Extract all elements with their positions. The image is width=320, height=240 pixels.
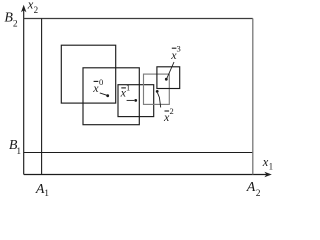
node point x0 xyxy=(106,94,109,97)
svg-text:x: x xyxy=(92,81,99,95)
label xbar1 xyxy=(120,82,131,99)
svg-text:1: 1 xyxy=(269,162,274,172)
svg-text:x: x xyxy=(170,48,177,62)
svg-text:3: 3 xyxy=(177,43,181,53)
svg-text:2: 2 xyxy=(13,19,18,29)
svg-text:2: 2 xyxy=(256,189,261,199)
svg-text:x: x xyxy=(120,86,127,100)
x1 axis xyxy=(24,172,272,177)
box R5 xyxy=(157,67,180,89)
node B1 label xyxy=(9,138,22,157)
svg-text:2: 2 xyxy=(170,106,174,116)
svg-text:1: 1 xyxy=(16,147,21,157)
svg-text:1: 1 xyxy=(44,189,49,199)
node point x2 xyxy=(156,90,159,93)
box R3 xyxy=(118,85,154,117)
wire B2 top edge xyxy=(24,18,253,20)
box R4 (gray) xyxy=(144,74,170,104)
wire A2 line xyxy=(252,19,254,175)
x1 axis label xyxy=(262,155,273,172)
pointer to point x3 xyxy=(167,62,174,78)
node point x3 xyxy=(165,78,168,81)
wire B1 line xyxy=(24,152,253,154)
x2 axis xyxy=(21,5,26,175)
svg-text:A: A xyxy=(246,180,256,195)
pointer to point x1 xyxy=(127,99,135,101)
svg-text:2: 2 xyxy=(34,5,39,15)
pointer to point x0 xyxy=(100,93,107,95)
node A2 label xyxy=(246,180,261,199)
pointer to point x2 xyxy=(158,93,161,108)
label xbar0 xyxy=(92,77,103,95)
node A1 label xyxy=(35,182,49,199)
svg-text:0: 0 xyxy=(99,77,103,87)
node point x1 xyxy=(134,99,137,102)
svg-text:1: 1 xyxy=(126,82,130,92)
wire A1 line xyxy=(41,19,43,175)
label xbar2 xyxy=(163,106,174,124)
x2 axis label xyxy=(27,0,38,15)
box R2 xyxy=(83,68,139,125)
node B2 label xyxy=(4,10,18,29)
box R1 xyxy=(61,45,115,103)
label xbar3 xyxy=(170,43,180,62)
svg-text:x: x xyxy=(163,110,170,124)
